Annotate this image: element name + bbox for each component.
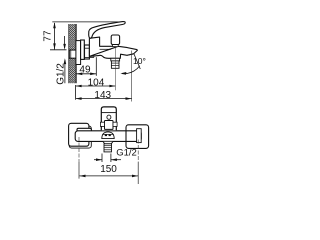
spout (front view, above bar) — [101, 107, 116, 130]
svg-text:104: 104 — [88, 77, 105, 88]
mixer body with cartridge (side view) — [89, 37, 137, 58]
escutcheon spacer ring (side view) — [81, 40, 85, 59]
dimension 143 — [76, 90, 132, 101]
left inlet escutcheon (hidden behind handle) — [69, 126, 91, 148]
wall escutcheon plate (side view) — [76, 41, 81, 65]
svg-text:77: 77 — [42, 30, 53, 42]
extension line from body (49) — [95, 57, 97, 76]
shower outlet with thread (side view) — [111, 58, 120, 68]
spout tip vertical reference line — [131, 51, 133, 102]
aerator square housing — [105, 121, 114, 130]
svg-text:G1/2: G1/2 — [55, 63, 66, 85]
dimension 150 — [80, 164, 139, 177]
svg-text:150: 150 — [100, 164, 117, 175]
handle end square (front view) — [69, 123, 89, 146]
extension line from lever top — [52, 21, 125, 23]
body bar (front view) — [75, 131, 141, 142]
10 degree slanted line — [134, 54, 140, 69]
lever handle (side view) — [89, 22, 126, 39]
G1/2 thread label (side view, arrows at pipe) — [55, 36, 66, 85]
aerator circle — [107, 115, 111, 119]
svg-text:143: 143 — [94, 90, 111, 101]
shower outlet centerline — [114, 48, 116, 91]
threaded nipple G1/2 (front view) — [104, 144, 112, 152]
wall (hatched section, side view) — [69, 24, 76, 83]
handle centerline left (dashed) — [78, 137, 80, 162]
supply pipe through wall — [69, 50, 76, 58]
diverter knob (side view) — [111, 35, 119, 47]
wall face extension line — [75, 85, 77, 100]
svg-text:G1/2: G1/2 — [116, 148, 137, 159]
svg-text:49: 49 — [79, 64, 91, 75]
bar end flange at right — [137, 129, 142, 143]
inlet centerline right (dashed) — [137, 140, 139, 163]
wall escutcheon square (front view, right) — [126, 125, 149, 149]
dimension 49 — [76, 64, 96, 75]
dimension 104 — [76, 77, 116, 88]
lever step above body bar — [77, 128, 91, 131]
dimension G1/2 (nipple) — [94, 148, 137, 162]
connection nut (side view) — [85, 45, 95, 59]
svg-text:10°: 10° — [133, 56, 146, 66]
diverter dome on bar (front view) — [102, 132, 114, 139]
shower connection neck (front view) — [103, 142, 113, 144]
10 degree arc with arrow — [120, 66, 139, 75]
side clip ticks on spout — [100, 122, 117, 126]
dimension 77 (vertical) — [42, 22, 66, 50]
